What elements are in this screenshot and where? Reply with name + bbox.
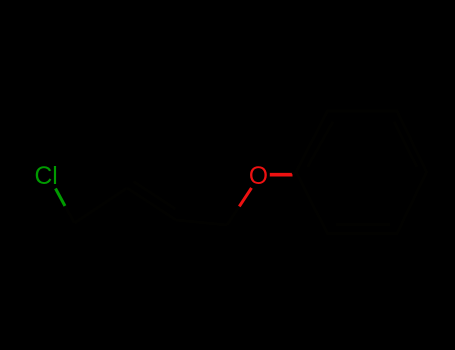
ring double bond inner line (left-top edge) bbox=[308, 122, 334, 168]
bond Cl-C1 (green half) bbox=[56, 189, 66, 207]
wire bond C2=C3 main bbox=[127, 188, 176, 220]
bond O-ring (red part) bbox=[270, 173, 293, 177]
svg-text:Cl: Cl bbox=[35, 163, 58, 190]
wire bond C1-C2 bbox=[75, 188, 128, 223]
ring double bond inner line (top-right/right edge) bbox=[394, 122, 417, 168]
wire bond C2=C3 inner line bbox=[134, 182, 176, 210]
bond O-ring (dark part) bbox=[293, 172, 297, 175]
benzene ring outline bbox=[296, 111, 427, 234]
ring double bond inner line (bottom edge) bbox=[336, 223, 390, 226]
bond Cl-C1 (dark half) bbox=[65, 206, 75, 223]
wire bond C3-C4 bbox=[176, 220, 227, 225]
bond C4-O (dark half) bbox=[227, 206, 239, 225]
bond C4-O (red half) bbox=[239, 188, 251, 207]
svg-text:O: O bbox=[249, 163, 268, 190]
